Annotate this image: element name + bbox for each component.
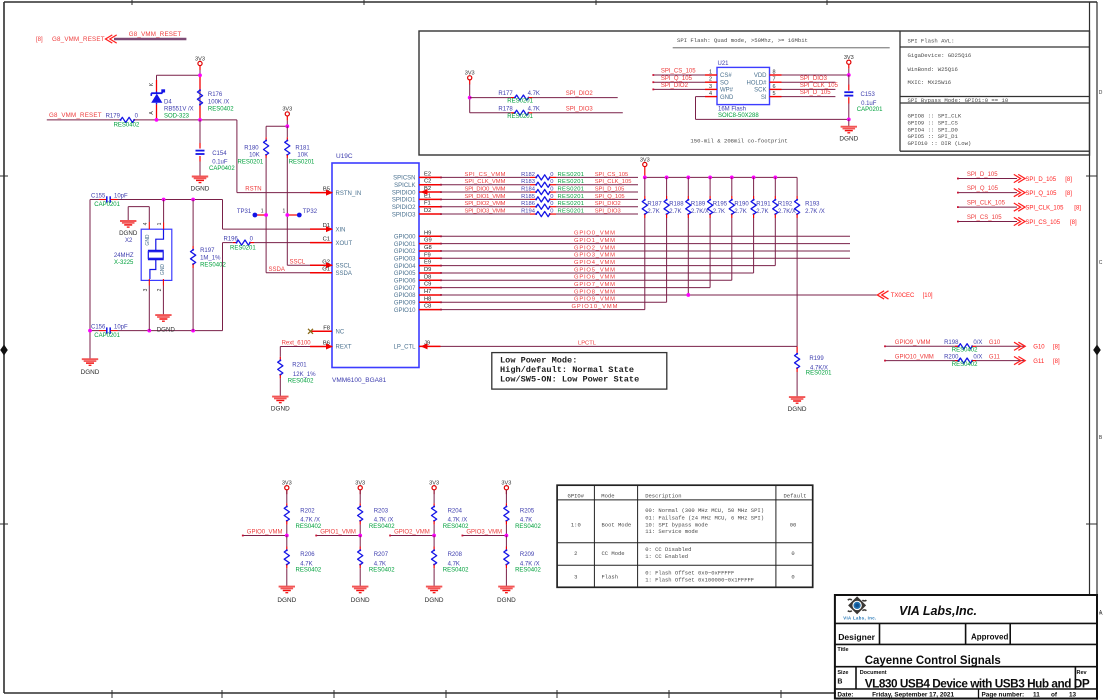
svg-text:SPI_CS_VMM: SPI_CS_VMM xyxy=(465,172,506,178)
svg-text:4.7K: 4.7K xyxy=(520,518,532,524)
svg-text:VL830 USB4 Device with USB3 Hu: VL830 USB4 Device with USB3 Hub and DP xyxy=(865,677,1090,691)
svg-text:R188: R188 xyxy=(669,202,684,208)
svg-text:Size: Size xyxy=(837,670,848,676)
svg-text:2.7K: 2.7K xyxy=(669,209,681,215)
svg-text:RES0201: RES0201 xyxy=(558,179,585,185)
svg-text:X2: X2 xyxy=(125,238,133,244)
svg-text:RES0402: RES0402 xyxy=(952,348,978,354)
svg-text:U21: U21 xyxy=(718,61,730,67)
svg-text:SPI_Q_105: SPI_Q_105 xyxy=(967,186,999,192)
svg-text:0: 0 xyxy=(791,573,794,580)
svg-text:VMM6100_BGA81: VMM6100_BGA81 xyxy=(332,377,387,384)
svg-text:Approved: Approved xyxy=(971,633,1008,642)
svg-text:R209: R209 xyxy=(520,552,535,558)
svg-text:DGND: DGND xyxy=(788,406,807,413)
svg-text:GPIO10_VMM: GPIO10_VMM xyxy=(895,354,934,360)
svg-text:[8]: [8] xyxy=(1053,359,1060,365)
svg-text:DGND: DGND xyxy=(271,406,290,413)
svg-text:SPIDIO2: SPIDIO2 xyxy=(392,205,416,211)
svg-text:E2: E2 xyxy=(424,171,431,177)
svg-text:3V3: 3V3 xyxy=(465,71,475,77)
svg-text:13: 13 xyxy=(1069,692,1077,699)
svg-text:R189: R189 xyxy=(691,202,706,208)
svg-text:R204: R204 xyxy=(448,508,463,514)
svg-text:SPIDIO0: SPIDIO0 xyxy=(392,190,416,196)
svg-text:H7: H7 xyxy=(424,289,431,295)
svg-text:10K: 10K xyxy=(249,153,260,159)
svg-text:R190: R190 xyxy=(734,202,749,208)
svg-text:12K_1%: 12K_1% xyxy=(293,372,316,378)
svg-text:RES0402: RES0402 xyxy=(515,524,541,530)
svg-text:GPIO7_VMM: GPIO7_VMM xyxy=(574,282,615,288)
svg-text:R193: R193 xyxy=(805,202,820,208)
svg-text:G8_VMM_RESET: G8_VMM_RESET xyxy=(129,31,182,38)
svg-text:TX0CEC: TX0CEC xyxy=(891,293,915,299)
svg-text:R177: R177 xyxy=(498,91,513,97)
svg-text:G11: G11 xyxy=(989,354,1001,360)
svg-text:SPI_DIO0_VMM: SPI_DIO0_VMM xyxy=(465,186,506,192)
svg-text:Description: Description xyxy=(645,493,681,500)
svg-text:R198: R198 xyxy=(944,340,959,346)
svg-text:Rext_6100: Rext_6100 xyxy=(282,340,312,346)
svg-text:G9: G9 xyxy=(424,238,432,244)
svg-text:TP31: TP31 xyxy=(237,209,252,215)
svg-text:RES0402: RES0402 xyxy=(443,524,469,530)
svg-text:F9: F9 xyxy=(424,252,431,258)
svg-text:SPI_DIO3: SPI_DIO3 xyxy=(800,76,828,82)
svg-text:C: C xyxy=(1099,260,1103,266)
svg-text:DGND: DGND xyxy=(191,186,210,193)
svg-text:DGND: DGND xyxy=(119,230,138,237)
svg-text:R200: R200 xyxy=(944,354,959,360)
svg-text:C1: C1 xyxy=(323,237,330,243)
svg-text:00: 00 xyxy=(790,521,797,528)
svg-text:2.7K: 2.7K xyxy=(734,209,746,215)
svg-text:0.1uF: 0.1uF xyxy=(212,160,228,166)
svg-text:2.7K/X: 2.7K/X xyxy=(691,209,709,215)
svg-text:2.7K /X: 2.7K /X xyxy=(805,209,825,215)
svg-text:2.7K: 2.7K xyxy=(756,209,768,215)
svg-text:HOLD#: HOLD# xyxy=(746,80,767,86)
svg-text:DGND: DGND xyxy=(497,597,516,604)
svg-text:RES0201: RES0201 xyxy=(230,246,256,252)
svg-text:SPI Bypass Mode: GPIO1:0 == 10: SPI Bypass Mode: GPIO1:0 == 10 xyxy=(908,97,1009,104)
svg-text:4.7K: 4.7K xyxy=(528,106,540,112)
svg-text:Document: Document xyxy=(860,670,887,676)
svg-text:GPIO#: GPIO# xyxy=(568,493,585,500)
svg-text:RES0402: RES0402 xyxy=(369,524,395,530)
svg-text:R192: R192 xyxy=(778,202,793,208)
svg-text:High/default: Normal State: High/default: Normal State xyxy=(500,365,634,375)
svg-text:C153: C153 xyxy=(861,92,876,98)
svg-text:GPIO8_VMM: GPIO8_VMM xyxy=(574,289,615,295)
svg-text:SOIC8-50X288: SOIC8-50X288 xyxy=(718,113,759,119)
svg-text:DGND: DGND xyxy=(277,597,296,604)
svg-text:CAP0201: CAP0201 xyxy=(94,333,120,339)
svg-text:24MHZ: 24MHZ xyxy=(114,253,134,259)
svg-text:2.7K: 2.7K xyxy=(713,209,725,215)
svg-text:GigaDevice: GD25Q16: GigaDevice: GD25Q16 xyxy=(908,52,972,59)
svg-text:SPI_CLK_105: SPI_CLK_105 xyxy=(1025,206,1064,212)
svg-text:X-3225: X-3225 xyxy=(114,260,134,266)
svg-text:0/X: 0/X xyxy=(973,340,982,346)
svg-text:RB551V /X: RB551V /X xyxy=(164,107,194,113)
svg-text:4.7K /X: 4.7K /X xyxy=(448,518,468,524)
svg-text:10K: 10K xyxy=(297,153,308,159)
svg-text:[8]: [8] xyxy=(1070,220,1077,226)
svg-text:R179: R179 xyxy=(106,114,121,120)
svg-text:100K /X: 100K /X xyxy=(208,99,229,105)
svg-text:VDD: VDD xyxy=(754,73,767,79)
svg-text:SPI_DIO3: SPI_DIO3 xyxy=(566,106,594,112)
svg-text:SSCL: SSCL xyxy=(290,259,306,265)
svg-text:2: 2 xyxy=(157,288,163,291)
svg-text:GPIO9_VMM: GPIO9_VMM xyxy=(574,297,615,303)
svg-text:RES0402: RES0402 xyxy=(114,123,140,129)
svg-text:E1: E1 xyxy=(424,193,431,199)
svg-text:RES0201: RES0201 xyxy=(558,201,585,207)
svg-text:D: D xyxy=(1099,90,1103,96)
svg-text:F8: F8 xyxy=(323,325,330,331)
svg-text:LP_CTL: LP_CTL xyxy=(393,345,416,351)
svg-text:GPIO4_VMM: GPIO4_VMM xyxy=(574,260,615,266)
svg-text:U19C: U19C xyxy=(336,153,353,160)
svg-text:0: 0 xyxy=(550,194,553,200)
svg-text:0/X: 0/X xyxy=(973,354,982,360)
svg-text:3V3: 3V3 xyxy=(282,107,292,113)
svg-text:C156: C156 xyxy=(91,324,106,330)
svg-text:SCK: SCK xyxy=(754,88,766,94)
svg-text:0: 0 xyxy=(550,186,553,192)
svg-text:1M_1%: 1M_1% xyxy=(200,255,221,261)
svg-text:RES0402: RES0402 xyxy=(296,568,322,574)
svg-text:GPIO2_VMM: GPIO2_VMM xyxy=(574,245,615,251)
svg-text:3V3: 3V3 xyxy=(640,157,650,163)
svg-text:[8]: [8] xyxy=(1053,345,1060,351)
svg-text:SSDA: SSDA xyxy=(336,271,352,277)
svg-text:RES0402: RES0402 xyxy=(443,568,469,574)
svg-text:4.7K: 4.7K xyxy=(528,91,540,97)
svg-text:GPIO01: GPIO01 xyxy=(394,242,416,248)
svg-text:SPI_DIO2: SPI_DIO2 xyxy=(595,201,621,207)
svg-text:GPIO09: GPIO09 xyxy=(394,300,416,306)
svg-text:R195: R195 xyxy=(713,202,728,208)
svg-text:GND: GND xyxy=(160,264,166,276)
svg-text:2: 2 xyxy=(574,550,577,557)
svg-text:Default: Default xyxy=(784,493,807,500)
svg-text:1: 1 xyxy=(283,209,286,215)
svg-text:[8]: [8] xyxy=(36,37,43,43)
svg-text:SPI_CS_105: SPI_CS_105 xyxy=(1025,220,1060,226)
svg-text:GPIO5_VMM: GPIO5_VMM xyxy=(574,267,615,273)
svg-text:RES0402: RES0402 xyxy=(369,568,395,574)
svg-text:R182: R182 xyxy=(521,172,535,178)
svg-text:RES0201: RES0201 xyxy=(558,172,585,178)
svg-text:SPI_CLK_105: SPI_CLK_105 xyxy=(595,179,632,185)
svg-text:RES0402: RES0402 xyxy=(288,378,314,384)
svg-text:R205: R205 xyxy=(520,508,535,514)
svg-text:GPIO6_VMM: GPIO6_VMM xyxy=(574,275,615,281)
svg-text:RSTN: RSTN xyxy=(245,187,261,193)
svg-text:GPIO00: GPIO00 xyxy=(394,235,416,241)
svg-text:Designer: Designer xyxy=(838,632,875,642)
svg-text:SPI_CLK_105: SPI_CLK_105 xyxy=(800,83,839,89)
svg-text:D9: D9 xyxy=(424,267,431,273)
svg-text:B: B xyxy=(837,679,842,686)
svg-text:RES0201: RES0201 xyxy=(558,194,585,200)
svg-text:[8]: [8] xyxy=(1065,177,1072,183)
svg-text:4.7K /X: 4.7K /X xyxy=(300,518,320,524)
svg-text:R194: R194 xyxy=(521,208,536,214)
svg-text:1:0: 1:0 xyxy=(571,521,581,528)
svg-text:4.7K /X: 4.7K /X xyxy=(374,518,394,524)
svg-text:WP#: WP# xyxy=(720,88,734,94)
svg-text:00: Normal (300 MHz MCU, 50 MH: 00: Normal (300 MHz MCU, 50 MHz SPI) xyxy=(645,507,764,514)
svg-text:SPICSN: SPICSN xyxy=(393,176,415,182)
svg-text:R184: R184 xyxy=(521,186,536,192)
svg-text:CS#: CS# xyxy=(720,73,732,79)
svg-text:01: Failsafe (24 MHz MCU, 6 MH: 01: Failsafe (24 MHz MCU, 6 MHz SPI) xyxy=(645,514,764,521)
svg-text:0: 0 xyxy=(550,172,553,178)
svg-text:G10: G10 xyxy=(1033,345,1045,351)
svg-text:4.7K: 4.7K xyxy=(448,561,460,567)
svg-text:R180: R180 xyxy=(244,146,259,152)
svg-text:SPI Flash: Quad mode, >50Mhz,: SPI Flash: Quad mode, >50Mhz, >= 16Mbit xyxy=(677,37,808,44)
svg-text:XOUT: XOUT xyxy=(336,241,353,247)
svg-text:4.7K: 4.7K xyxy=(374,561,386,567)
svg-text:4.7K: 4.7K xyxy=(300,561,312,567)
svg-text:1: 1 xyxy=(261,209,264,215)
svg-text:RES0201: RES0201 xyxy=(558,208,585,214)
svg-text:GPIO10_VMM: GPIO10_VMM xyxy=(572,304,618,310)
svg-text:SPI_DIO2: SPI_DIO2 xyxy=(661,83,689,89)
svg-text:G10: G10 xyxy=(989,340,1001,346)
svg-text:R208: R208 xyxy=(448,552,463,558)
svg-text:2.7K: 2.7K xyxy=(647,209,659,215)
svg-text:of: of xyxy=(1051,692,1058,699)
svg-text:[8]: [8] xyxy=(1074,206,1081,212)
svg-text:GPIO10: GPIO10 xyxy=(394,308,416,314)
svg-text:[8]: [8] xyxy=(1065,191,1072,197)
svg-text:3V3: 3V3 xyxy=(501,481,511,487)
svg-text:11: 11 xyxy=(1033,692,1040,699)
svg-text:WinBond: W25Q16: WinBond: W25Q16 xyxy=(908,66,958,73)
svg-text:R183: R183 xyxy=(521,179,535,185)
svg-text:SPI_DIO2_VMM: SPI_DIO2_VMM xyxy=(465,201,506,207)
svg-text:REXT: REXT xyxy=(336,345,352,351)
svg-text:SSCL: SSCL xyxy=(336,264,352,270)
svg-text:Cayenne Control Signals: Cayenne Control Signals xyxy=(865,655,1001,667)
svg-text:LPCTL: LPCTL xyxy=(578,340,597,346)
svg-text:SSDA: SSDA xyxy=(269,267,285,273)
svg-text:Page number:: Page number: xyxy=(982,692,1025,699)
svg-text:SPI_CS_105: SPI_CS_105 xyxy=(661,69,696,75)
svg-text:G8_VMM_RESET: G8_VMM_RESET xyxy=(52,36,105,43)
svg-text:VIA Labs,Inc.: VIA Labs,Inc. xyxy=(899,604,977,618)
svg-text:CAP0402: CAP0402 xyxy=(209,166,235,172)
svg-text:D8: D8 xyxy=(424,274,431,280)
svg-text:11: Service mode: 11: Service mode xyxy=(645,528,698,535)
svg-text:0: CC Disabled: 0: CC Disabled xyxy=(645,546,691,553)
svg-text:SPI_CS_105: SPI_CS_105 xyxy=(967,215,1002,221)
svg-text:R196: R196 xyxy=(224,236,239,242)
svg-text:R206: R206 xyxy=(300,552,315,558)
svg-text:GPIO0_VMM: GPIO0_VMM xyxy=(574,231,615,237)
svg-text:DGND: DGND xyxy=(425,597,444,604)
svg-text:DGND: DGND xyxy=(157,326,176,333)
svg-text:0: 0 xyxy=(550,201,553,207)
svg-text:0: 0 xyxy=(550,208,553,214)
svg-text:Date:: Date: xyxy=(837,692,853,699)
svg-text:SPI_DIO3: SPI_DIO3 xyxy=(595,208,621,214)
svg-text:GPIO1_VMM: GPIO1_VMM xyxy=(320,529,356,535)
svg-text:150-mil & 208mil co-footprint: 150-mil & 208mil co-footprint xyxy=(690,137,787,144)
svg-text:R176: R176 xyxy=(208,92,223,98)
svg-text:4: 4 xyxy=(143,222,149,225)
svg-text:C155: C155 xyxy=(91,193,106,199)
svg-text:2.7K/X: 2.7K/X xyxy=(778,209,796,215)
svg-text:[10]: [10] xyxy=(923,293,933,299)
svg-text:G1: G1 xyxy=(322,267,330,273)
svg-text:C8: C8 xyxy=(424,304,431,310)
svg-text:R191: R191 xyxy=(756,202,771,208)
svg-text:3V3: 3V3 xyxy=(282,481,292,487)
svg-text:GPIO08: GPIO08 xyxy=(394,293,416,299)
svg-text:SOD-323: SOD-323 xyxy=(164,114,190,120)
svg-text:RES0402: RES0402 xyxy=(296,524,322,530)
svg-text:GPIO0_VMM: GPIO0_VMM xyxy=(247,529,283,535)
svg-text:D2: D2 xyxy=(424,208,431,214)
svg-text:10pF: 10pF xyxy=(114,324,128,330)
svg-text:RES0201: RES0201 xyxy=(806,371,832,377)
svg-text:R185: R185 xyxy=(521,194,535,200)
svg-text:GPIO02: GPIO02 xyxy=(394,249,416,255)
svg-text:RES0201: RES0201 xyxy=(507,114,533,120)
svg-text:SO: SO xyxy=(720,80,729,86)
svg-text:GPIO10 :: DIR (Low): GPIO10 :: DIR (Low) xyxy=(908,140,972,147)
svg-text:1: Flash Offset 0x100000~0x1FF: 1: Flash Offset 0x100000~0x1FFFFF xyxy=(645,576,754,583)
svg-text:GPIO3_VMM: GPIO3_VMM xyxy=(574,253,615,259)
svg-text:TP32: TP32 xyxy=(303,209,318,215)
svg-text:GPIO9_VMM: GPIO9_VMM xyxy=(895,340,931,346)
svg-text:3V3: 3V3 xyxy=(844,55,854,61)
svg-text:RES0402: RES0402 xyxy=(208,106,234,112)
svg-text:F1: F1 xyxy=(424,201,431,207)
svg-text:E9: E9 xyxy=(424,260,431,266)
svg-text:SPIDIO1: SPIDIO1 xyxy=(392,198,416,204)
svg-text:SPI_D_105: SPI_D_105 xyxy=(967,172,998,178)
svg-text:GND: GND xyxy=(720,95,734,101)
svg-text:RES0201: RES0201 xyxy=(558,186,585,192)
svg-text:SPI_D_105: SPI_D_105 xyxy=(1025,177,1056,183)
svg-text:RES0201: RES0201 xyxy=(507,99,533,105)
svg-text:R197: R197 xyxy=(200,248,215,254)
svg-text:G8_VMM_RESET: G8_VMM_RESET xyxy=(49,112,102,119)
svg-text:3: 3 xyxy=(143,288,149,291)
svg-text:D4: D4 xyxy=(164,100,172,106)
svg-text:A.: A. xyxy=(1100,611,1103,616)
svg-text:1: 1 xyxy=(157,222,163,225)
svg-text:Rev: Rev xyxy=(1077,670,1088,676)
svg-text:Mode: Mode xyxy=(601,493,614,500)
svg-text:RSTN_IN: RSTN_IN xyxy=(336,191,362,197)
svg-text:R201: R201 xyxy=(292,363,307,369)
svg-text:GPIO2_VMM: GPIO2_VMM xyxy=(394,529,430,535)
svg-text:DGND: DGND xyxy=(839,136,858,143)
svg-text:SPI_Q_105: SPI_Q_105 xyxy=(661,76,693,82)
svg-text:3: 3 xyxy=(574,573,577,580)
svg-text:XIN: XIN xyxy=(336,227,346,233)
svg-text:GPIO3_VMM: GPIO3_VMM xyxy=(466,529,502,535)
svg-text:R178: R178 xyxy=(498,106,513,112)
svg-text:R186: R186 xyxy=(521,201,535,207)
svg-text:3V3: 3V3 xyxy=(195,56,205,62)
svg-text:R207: R207 xyxy=(374,552,389,558)
svg-text:GPIO04: GPIO04 xyxy=(394,264,416,270)
svg-text:GND: GND xyxy=(145,234,151,246)
svg-text:RES0201: RES0201 xyxy=(238,160,264,166)
svg-text:RES0402: RES0402 xyxy=(952,362,978,368)
svg-text:GPIO1_VMM: GPIO1_VMM xyxy=(574,238,615,244)
svg-text:Low Power Mode:: Low Power Mode: xyxy=(500,356,577,366)
svg-text:C154: C154 xyxy=(212,151,227,157)
svg-text:Title: Title xyxy=(837,647,848,653)
svg-text:GPIO05: GPIO05 xyxy=(394,271,416,277)
svg-text:R203: R203 xyxy=(374,508,389,514)
svg-text:SPI_D_105: SPI_D_105 xyxy=(800,90,831,96)
svg-text:SPI_Q_105: SPI_Q_105 xyxy=(1025,191,1057,197)
svg-text:C9: C9 xyxy=(424,282,431,288)
svg-text:GPIO03: GPIO03 xyxy=(394,256,416,262)
svg-text:R202: R202 xyxy=(300,508,315,514)
svg-text:SPI_DIO3_VMM: SPI_DIO3_VMM xyxy=(465,208,506,214)
svg-text:RES0402: RES0402 xyxy=(200,262,226,268)
svg-text:CAP0201: CAP0201 xyxy=(94,202,120,208)
svg-text:CAP0201: CAP0201 xyxy=(857,107,883,113)
svg-text:SPI Flash AVL:: SPI Flash AVL: xyxy=(908,38,955,45)
svg-text:GPIO07: GPIO07 xyxy=(394,286,416,292)
svg-text:SPI_DIO2: SPI_DIO2 xyxy=(566,91,594,97)
svg-text:3V3: 3V3 xyxy=(429,481,439,487)
svg-text:SPI_D_105: SPI_D_105 xyxy=(595,186,625,192)
svg-text:G11: G11 xyxy=(1033,359,1045,365)
svg-text:G8: G8 xyxy=(424,245,432,251)
svg-text:Flash: Flash xyxy=(602,573,619,580)
svg-text:GPIO06: GPIO06 xyxy=(394,278,416,284)
svg-text:SI: SI xyxy=(761,95,767,101)
svg-text:R187: R187 xyxy=(647,202,662,208)
svg-text:Boot Mode: Boot Mode xyxy=(602,521,632,528)
svg-text:0: 0 xyxy=(791,550,794,557)
svg-text:1: CC Enabled: 1: CC Enabled xyxy=(645,553,688,560)
svg-text:DGND: DGND xyxy=(351,597,370,604)
svg-text:SPIDIO3: SPIDIO3 xyxy=(392,212,416,218)
svg-text:C2: C2 xyxy=(424,179,431,185)
svg-text:Friday, September 17, 2021: Friday, September 17, 2021 xyxy=(872,692,954,699)
svg-text:SPI_CLK_VMM: SPI_CLK_VMM xyxy=(465,179,506,185)
svg-text:R181: R181 xyxy=(295,146,310,152)
svg-text:SPI_Q_105: SPI_Q_105 xyxy=(595,194,625,200)
svg-text:SPICLK: SPICLK xyxy=(394,183,415,189)
svg-text:VIA Labs, Inc.: VIA Labs, Inc. xyxy=(843,615,876,620)
svg-text:R199: R199 xyxy=(809,356,824,362)
svg-text:Low/SW5-ON: Low Power State: Low/SW5-ON: Low Power State xyxy=(500,375,639,385)
svg-text:10pF: 10pF xyxy=(114,193,128,199)
svg-text:DGND: DGND xyxy=(81,369,100,376)
svg-text:RES0402: RES0402 xyxy=(515,568,541,574)
svg-text:4.7K /X: 4.7K /X xyxy=(520,561,540,567)
svg-text:3V3: 3V3 xyxy=(355,481,365,487)
